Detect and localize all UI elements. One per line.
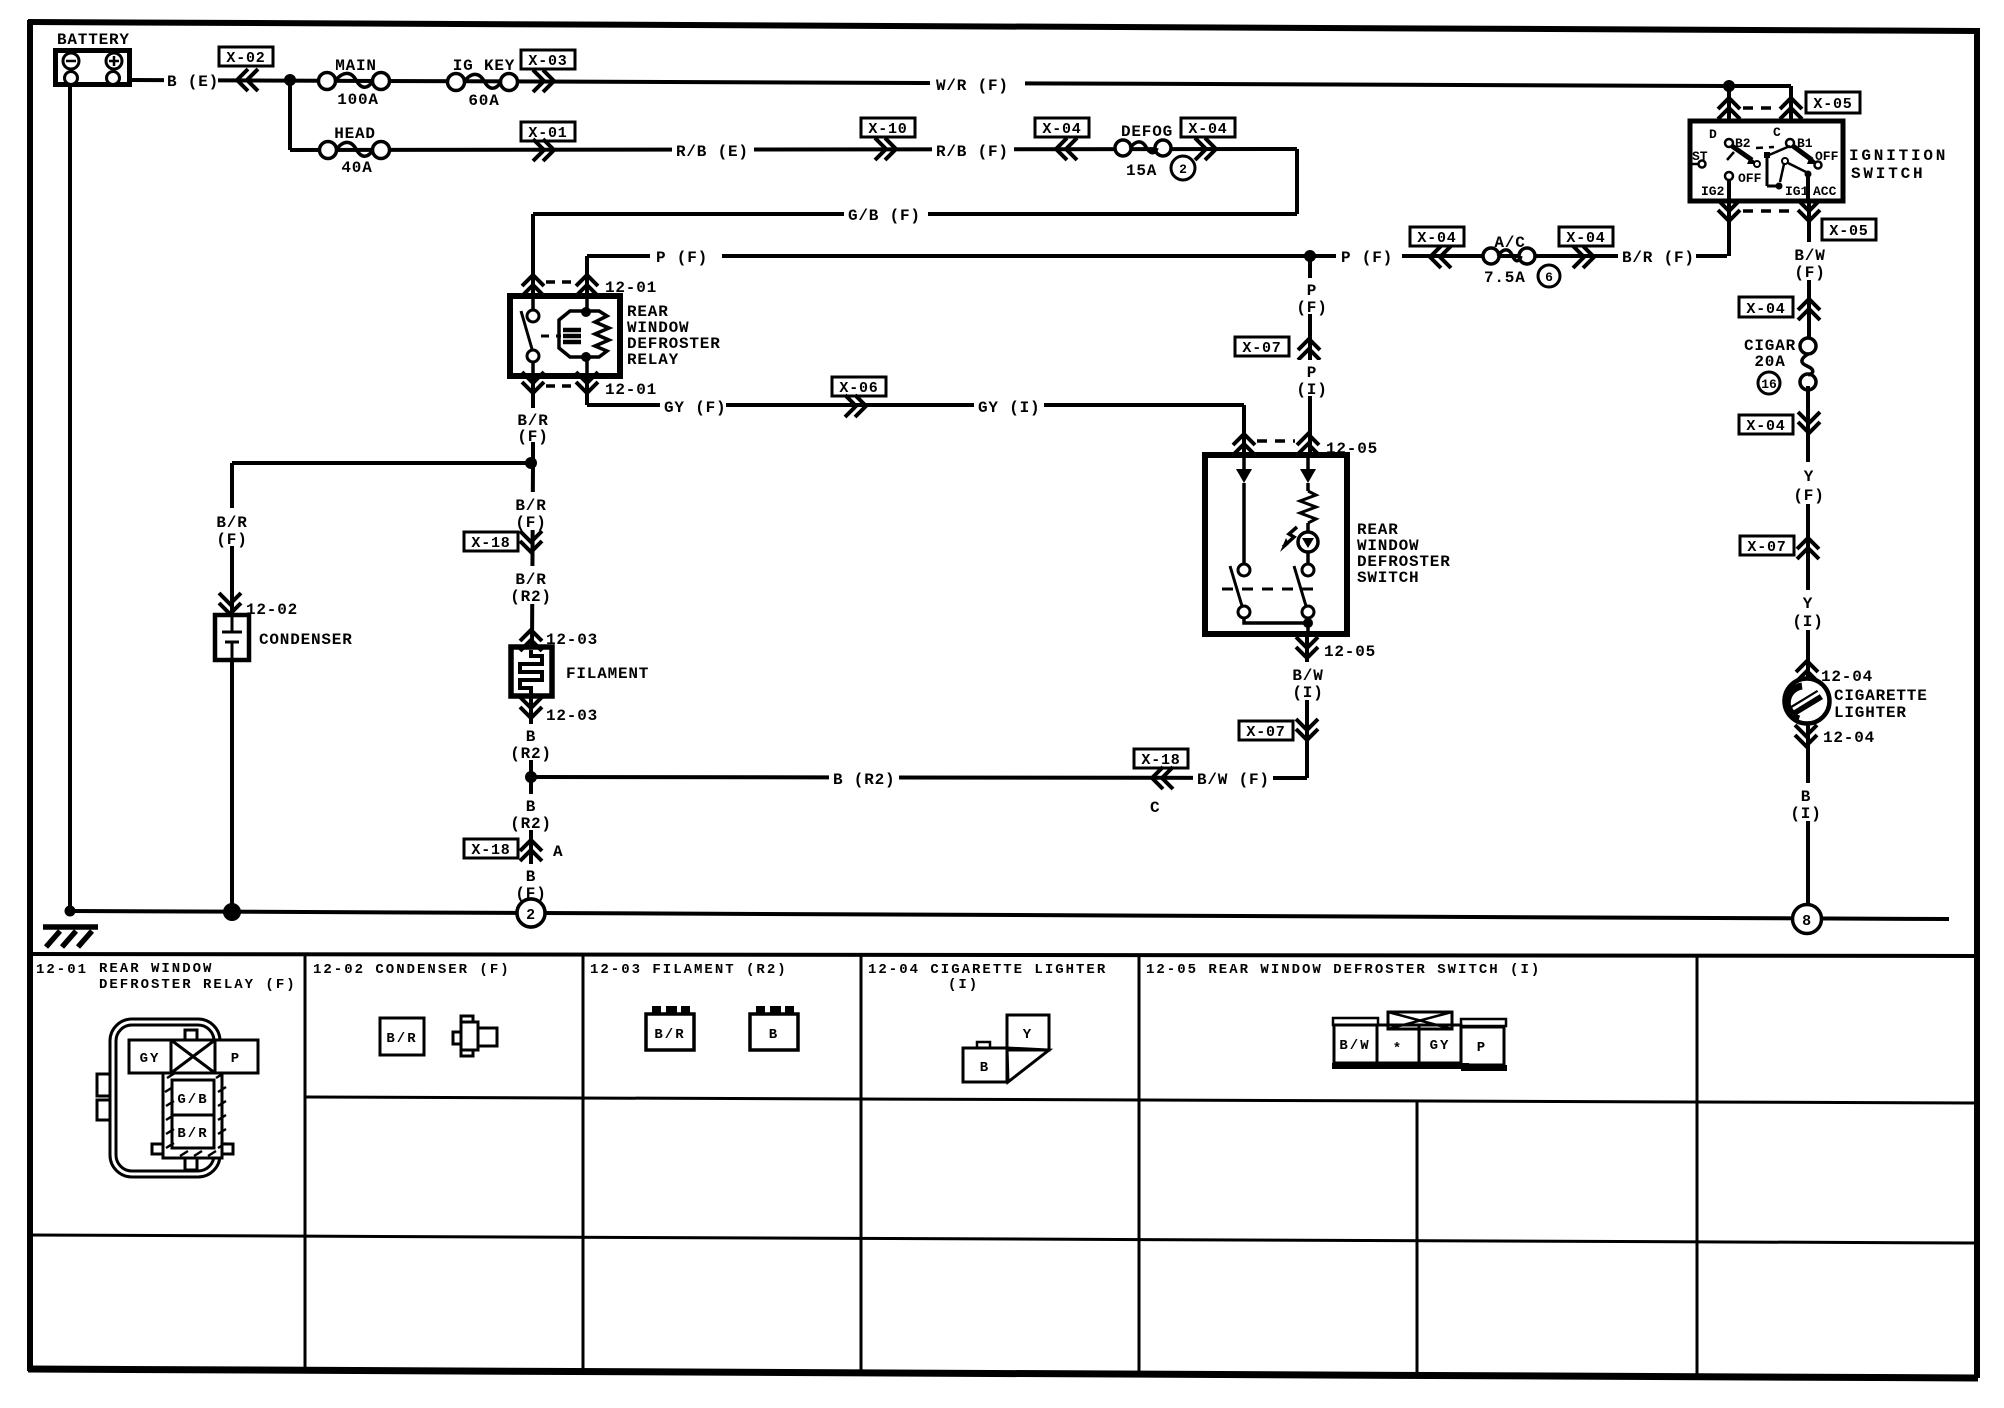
label B (R2) row: [829, 766, 899, 789]
svg-text:B/R: B/R: [515, 571, 546, 589]
svg-text:12-02: 12-02: [246, 601, 298, 619]
fuse DEFOG 15A: [1115, 123, 1195, 180]
svg-text:(R2): (R2): [510, 745, 552, 763]
svg-text:B: B: [526, 868, 536, 886]
svg-text:(F): (F): [1296, 299, 1327, 317]
node P junction: [1304, 250, 1316, 262]
svg-text:Y: Y: [1803, 595, 1813, 613]
wire P down to switch: [1308, 256, 1312, 455]
svg-text:P (F): P (F): [656, 249, 708, 267]
svg-text:B: B: [526, 728, 536, 746]
connector X-07 cigar: [1740, 536, 1819, 559]
cigar column: [1786, 242, 1832, 282]
svg-text:B/R: B/R: [654, 1027, 685, 1043]
svg-text:X-04: X-04: [1042, 121, 1081, 138]
svg-text:B: B: [1801, 788, 1811, 806]
connector X-01: [521, 122, 575, 161]
label W/R (F): [930, 73, 1025, 95]
table header 12-01: [36, 961, 297, 993]
svg-text:(R2): (R2): [510, 815, 552, 833]
rear window defroster switch: [1205, 455, 1451, 634]
connector X-03: [521, 50, 575, 92]
wire defog down to G/B: [1295, 149, 1299, 214]
svg-text:X-07: X-07: [1242, 340, 1281, 357]
label B/W (F) row: [1193, 766, 1273, 789]
label GY (F): [660, 395, 726, 417]
svg-text:40A: 40A: [341, 159, 372, 177]
svg-text:B: B: [980, 1060, 990, 1076]
svg-text:X-07: X-07: [1246, 724, 1285, 741]
svg-text:IG1: IG1: [1785, 184, 1809, 199]
svg-text:(R2): (R2): [510, 588, 552, 606]
connector X-04 cigar top: [1739, 297, 1820, 320]
condenser branch: [230, 463, 234, 615]
svg-text:20A: 20A: [1754, 353, 1785, 371]
svg-text:B: B: [769, 1027, 779, 1043]
svg-text:G/B (F): G/B (F): [848, 207, 921, 225]
wire P row: [587, 254, 1727, 258]
svg-text:B/R: B/R: [515, 497, 546, 515]
table connector 12-01 drawing: [97, 1019, 258, 1177]
label G/B (F): [844, 204, 928, 225]
label B/R (F) condenser: [211, 508, 253, 549]
label GY (I): [974, 395, 1044, 417]
svg-text:(F): (F): [515, 514, 546, 532]
svg-text:X-04: X-04: [1746, 301, 1785, 318]
svg-text:OFF: OFF: [1815, 149, 1839, 164]
svg-text:X-02: X-02: [226, 50, 265, 67]
svg-text:DEFOG: DEFOG: [1121, 123, 1173, 141]
table 12-05 drawing: [1332, 1012, 1507, 1071]
svg-text:X-03: X-03: [528, 53, 567, 70]
node ground 2 overlay: [517, 899, 545, 927]
node ground 8 overlay: [1793, 905, 1822, 934]
label Y (I): [1788, 590, 1828, 631]
svg-text:P: P: [1307, 364, 1317, 382]
relay rear window defroster: [510, 296, 721, 376]
connector marker 12-05 top: [1233, 434, 1378, 458]
svg-text:100A: 100A: [337, 91, 379, 109]
fuse IG KEY 60A: [448, 57, 518, 110]
connector X-07 switch: [1239, 719, 1318, 741]
filament: [511, 647, 649, 696]
svg-text:X-05: X-05: [1829, 223, 1868, 240]
svg-text:GY: GY: [140, 1051, 161, 1067]
condenser: [215, 615, 353, 660]
label B/R (R2): [508, 566, 556, 606]
connector X-04 ac right: [1559, 227, 1613, 268]
svg-text:2: 2: [1179, 162, 1187, 177]
svg-text:C: C: [1150, 799, 1160, 817]
svg-text:CIGARETTE: CIGARETTE: [1834, 687, 1928, 705]
label Y (F): [1788, 462, 1830, 505]
svg-text:Y: Y: [1023, 1027, 1033, 1043]
svg-text:(F): (F): [1794, 264, 1825, 282]
svg-text:GY: GY: [1430, 1038, 1451, 1054]
svg-text:GY (I): GY (I): [978, 399, 1040, 417]
connector X-10: [861, 118, 915, 160]
wire B(R2) row: [531, 777, 1307, 778]
svg-text:12-05: 12-05: [1324, 643, 1376, 661]
junction B/R to condenser: [232, 461, 531, 465]
svg-text:12-04: 12-04: [1821, 668, 1873, 686]
svg-text:FILAMENT: FILAMENT: [566, 665, 649, 683]
svg-text:REAR WINDOW: REAR WINDOW: [99, 961, 213, 977]
ground rail: [70, 911, 1949, 919]
svg-text:(I): (I): [1790, 805, 1821, 823]
wire battery ground down: [68, 85, 72, 911]
svg-text:C: C: [1773, 125, 1781, 140]
svg-text:IGNITION: IGNITION: [1849, 147, 1948, 165]
svg-text:X-18: X-18: [471, 842, 510, 859]
node main junction: [284, 74, 296, 86]
connector 12-02: [219, 593, 298, 619]
connector X-02: [219, 47, 273, 91]
svg-text:RELAY: RELAY: [627, 351, 679, 369]
svg-text:ACC: ACC: [1813, 184, 1837, 199]
connector 12-03 bottom: [520, 697, 598, 725]
svg-text:6: 6: [1545, 270, 1553, 285]
svg-text:B/W (F): B/W (F): [1197, 771, 1270, 789]
svg-text:X-07: X-07: [1747, 539, 1786, 556]
svg-text:(I): (I): [1792, 613, 1823, 631]
svg-text:(F): (F): [1793, 487, 1824, 505]
node B junction: [525, 771, 537, 783]
label R/B (F): [932, 139, 1014, 161]
svg-text:B/R (F): B/R (F): [1622, 249, 1695, 267]
label P (F) vertical: [1292, 278, 1332, 317]
svg-text:DEFROSTER RELAY (F): DEFROSTER RELAY (F): [99, 977, 297, 993]
svg-text:2: 2: [526, 907, 536, 924]
label R/B (E): [672, 140, 754, 161]
svg-text:D: D: [1709, 127, 1717, 142]
svg-text:15A: 15A: [1126, 162, 1157, 180]
svg-text:P: P: [1477, 1040, 1487, 1056]
svg-text:SWITCH: SWITCH: [1851, 165, 1925, 183]
ignition switch box: [1690, 121, 1843, 201]
svg-text:B/W: B/W: [1292, 667, 1323, 685]
label B/W (I): [1286, 662, 1330, 702]
node ground 2: [517, 899, 545, 927]
wire HEAD row: [290, 149, 1297, 150]
svg-text:Y: Y: [1804, 468, 1814, 486]
svg-text:W/R (F): W/R (F): [936, 77, 1009, 95]
svg-text:B/R: B/R: [216, 514, 247, 532]
svg-text:(F): (F): [517, 428, 548, 446]
battery: [56, 31, 130, 85]
fuse HEAD 40A: [320, 125, 390, 177]
svg-text:(I): (I): [948, 977, 979, 993]
svg-text:X-04: X-04: [1746, 418, 1785, 435]
svg-text:CONDENSER: CONDENSER: [259, 631, 353, 649]
svg-text:16: 16: [1761, 377, 1777, 392]
connector marker X-05 bottom: [1718, 200, 1876, 344]
label B/R (F): [1618, 246, 1696, 267]
connector X-18 top: [464, 531, 542, 552]
svg-text:12-05 REAR WINDOW DEFROSTER SW: 12-05 REAR WINDOW DEFROSTER SWITCH (I): [1146, 962, 1541, 978]
svg-text:GY (F): GY (F): [664, 399, 726, 417]
svg-text:R/B (F): R/B (F): [936, 143, 1009, 161]
svg-text:R/B (E): R/B (E): [676, 143, 749, 161]
svg-text:8: 8: [1802, 913, 1812, 930]
svg-text:B/W: B/W: [1794, 247, 1825, 265]
svg-text:B (R2): B (R2): [833, 771, 895, 789]
svg-text:OFF: OFF: [1738, 171, 1762, 186]
svg-text:X-04: X-04: [1417, 230, 1456, 247]
connector marker 12-01 bottom: [522, 372, 657, 463]
connector 12-04 bottom: [1795, 725, 1875, 747]
TABLE-LINES: [28, 954, 1976, 956]
label B (F): [510, 864, 552, 903]
svg-text:P: P: [231, 1051, 241, 1067]
wire HEAD branch vertical: [288, 80, 292, 150]
wire GY row: [587, 403, 1244, 407]
connector 12-03 top: [520, 630, 598, 651]
svg-text:X-04: X-04: [1188, 121, 1227, 138]
connector X-06: [832, 377, 886, 417]
table 12-02 drawing: [380, 1016, 497, 1056]
svg-text:12-01: 12-01: [605, 381, 657, 399]
FRAME: [28, 22, 1978, 31]
svg-text:B/R: B/R: [386, 1031, 417, 1047]
svg-text:12-04: 12-04: [1823, 729, 1875, 747]
label B (I): [1788, 783, 1826, 823]
svg-text:B/W: B/W: [1339, 1038, 1370, 1054]
label P (I) vertical: [1292, 360, 1332, 399]
fuse MAIN 100A: [319, 57, 390, 109]
svg-text:B: B: [526, 798, 536, 816]
connector 12-05 bottom: [1296, 634, 1376, 778]
svg-text:(F): (F): [216, 531, 247, 549]
label B(E): [164, 70, 219, 91]
svg-text:X-18: X-18: [471, 535, 510, 552]
wire battery B(E) top main: [130, 80, 1729, 86]
connector X-04 defog right: [1181, 118, 1235, 160]
svg-text:X-04: X-04: [1566, 230, 1605, 247]
svg-text:IG2: IG2: [1701, 184, 1725, 199]
svg-text:MAIN: MAIN: [335, 57, 377, 75]
svg-text:12-03 FILAMENT (R2): 12-03 FILAMENT (R2): [590, 962, 788, 978]
svg-text:P: P: [1307, 282, 1317, 300]
table 12-04 drawing: [963, 1015, 1049, 1082]
svg-text:X-10: X-10: [868, 121, 907, 138]
ground symbol: [43, 927, 98, 947]
svg-text:G/B: G/B: [177, 1092, 208, 1108]
connector X-18 bottom: [464, 839, 563, 861]
fuse A/C 7.5A: [1483, 234, 1560, 287]
label B (R2) lower: [508, 794, 556, 833]
connector X-07 P: [1235, 337, 1320, 360]
connector X-04 ac left: [1410, 227, 1464, 268]
label P (F) left: [650, 246, 722, 267]
svg-text:12-02 CONDENSER (F): 12-02 CONDENSER (F): [313, 962, 511, 978]
svg-text:A: A: [553, 843, 563, 861]
svg-text:P (F): P (F): [1341, 249, 1393, 267]
fuse CIGAR 20A vertical: [1744, 337, 1816, 394]
wire GY down to switch: [1242, 405, 1246, 455]
svg-text:X-05: X-05: [1813, 96, 1852, 113]
svg-text:B (E): B (E): [167, 73, 219, 91]
connector marker X-05 top: [1718, 92, 1860, 119]
connector 12-04 top: [1796, 661, 1873, 686]
connector X-04 defog left: [1035, 118, 1089, 160]
svg-text:B/R: B/R: [177, 1126, 208, 1142]
svg-text:LIGHTER: LIGHTER: [1834, 704, 1907, 722]
table 12-03 drawing: [646, 1006, 798, 1050]
label P (F) right: [1336, 246, 1402, 267]
svg-text:X-06: X-06: [839, 380, 878, 397]
svg-text:7.5A: 7.5A: [1484, 269, 1526, 287]
label B (R2): [508, 724, 556, 763]
svg-text:(I): (I): [1296, 381, 1327, 399]
wire G/B row: [533, 212, 1297, 216]
connector X-18 row: [1134, 749, 1188, 817]
svg-text:(I): (I): [1292, 684, 1323, 702]
label B/R (F) below relay: [512, 408, 554, 446]
svg-text:BATTERY: BATTERY: [57, 31, 130, 49]
svg-text:12-03: 12-03: [546, 707, 598, 725]
svg-text:HEAD: HEAD: [334, 125, 376, 143]
cigarette lighter: [1785, 679, 1928, 724]
label B/R (F) below junction: [510, 492, 552, 532]
svg-text:12-04 CIGARETTE LIGHTER: 12-04 CIGARETTE LIGHTER: [868, 962, 1107, 978]
connector marker 12-01 top: [522, 275, 657, 297]
connector X-04 cigar bottom: [1739, 412, 1820, 435]
ignition top wires: [1723, 80, 1735, 92]
svg-text:*: *: [1393, 1041, 1403, 1057]
svg-text:60A: 60A: [468, 92, 499, 110]
svg-text:12-01: 12-01: [36, 962, 88, 978]
wire P down to relay right pin: [585, 256, 589, 296]
svg-text:SWITCH: SWITCH: [1357, 569, 1419, 587]
wire G/B down to relay: [531, 214, 535, 296]
